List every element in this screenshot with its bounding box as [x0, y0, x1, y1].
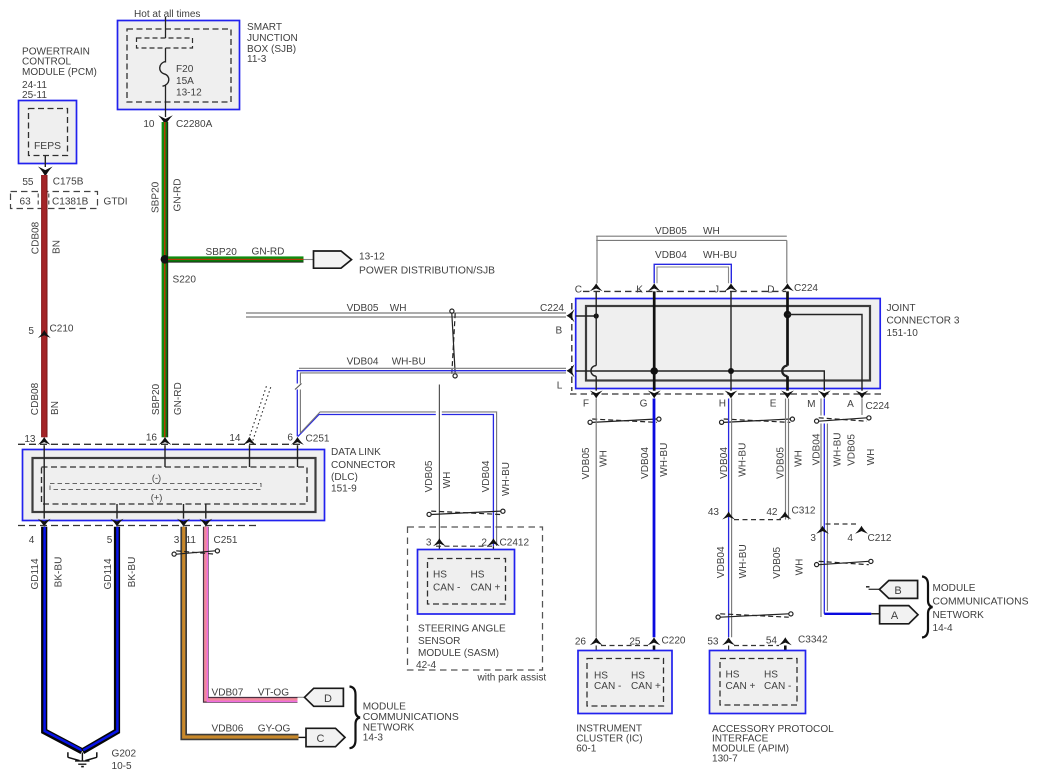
svg-text:3: 3: [810, 533, 816, 544]
DLC pin 13 arrow: [38, 437, 51, 445]
svg-text:WH: WH: [703, 226, 720, 237]
JC3 internal: C-F wire with hop: [595, 291, 597, 365]
svg-text:HS: HS: [433, 570, 447, 581]
connector A (module communications network): [880, 606, 918, 624]
svg-text:MODULE: MODULE: [363, 701, 406, 712]
instrument cluster IC box: [595, 646, 597, 659]
svg-text:WH: WH: [442, 472, 453, 489]
svg-text:G: G: [640, 399, 648, 410]
wire: battery feed "Hot at all times": [165, 17, 167, 63]
svg-text:151-9: 151-9: [331, 484, 357, 495]
JC3 pin L arrow: [566, 364, 574, 377]
svg-text:WH: WH: [599, 450, 610, 467]
connector C2412 pins 3,2: [433, 538, 446, 546]
wire CDB08 BN (red) PCM to DLC pin 13: [41, 175, 47, 437]
svg-text:HS: HS: [471, 570, 485, 581]
svg-text:SENSOR: SENSOR: [418, 636, 460, 647]
svg-text:WH-BU: WH-BU: [501, 462, 512, 496]
connector C2280A pin 10 arrow: [158, 115, 173, 126]
svg-text:WH: WH: [390, 303, 407, 314]
svg-text:63: 63: [20, 197, 32, 208]
wire VDB04 WH-BU pin G to IC pin 25 (blue): [653, 399, 656, 638]
svg-text:POWER DISTRIBUTION/SJB: POWER DISTRIBUTION/SJB: [359, 266, 495, 277]
JC3 internal: B bus (VDB05): [576, 315, 597, 317]
svg-text:WH-BU: WH-BU: [659, 443, 670, 477]
svg-text:14-4: 14-4: [933, 623, 954, 634]
svg-text:GD114: GD114: [30, 558, 41, 589]
svg-text:BOX (SJB): BOX (SJB): [247, 44, 296, 55]
wire VDB05 WH pin F to IC pin 26: [595, 399, 597, 638]
svg-text:151-10: 151-10: [887, 328, 919, 339]
twisted pair symbol (vertical): [450, 309, 454, 313]
svg-text:10-5: 10-5: [112, 761, 133, 772]
svg-text:WH-BU: WH-BU: [703, 250, 737, 261]
svg-text:14-3: 14-3: [363, 733, 384, 744]
svg-text:VDB04: VDB04: [716, 546, 727, 578]
svg-text:FEPS: FEPS: [34, 141, 61, 152]
svg-text:13-12: 13-12: [359, 252, 385, 263]
wire VDB04 WH-BU to joint connector pin L: [299, 367, 566, 369]
svg-text:WH-BU: WH-BU: [832, 432, 843, 466]
connector C224 dashed line (top): [583, 290, 786, 292]
svg-text:26: 26: [575, 637, 587, 648]
svg-text:S220: S220: [173, 275, 197, 286]
wire VDB07 VT-OG (pink) pin11 to connector D: [206, 527, 298, 700]
svg-text:H: H: [719, 399, 726, 410]
JC3 internal: D-E wire with hop: [786, 291, 789, 365]
connector C251 dashed line (DLC top): [18, 443, 301, 445]
svg-text:GD114: GD114: [103, 558, 114, 589]
svg-text:HS: HS: [726, 670, 740, 681]
svg-text:GN-RD: GN-RD: [173, 382, 184, 415]
wire GD114 BK-BU pin5 to G202: [83, 527, 117, 752]
JC3 bottom pin arrows F,G,H,E,M,A: [590, 391, 603, 399]
svg-text:55: 55: [22, 177, 34, 188]
svg-text:JOINT: JOINT: [887, 303, 916, 314]
svg-text:25-11: 25-11: [22, 90, 47, 101]
svg-text:C220: C220: [662, 636, 686, 647]
wire VDB05 WH (gray pair) to joint connector pin B: [246, 312, 566, 314]
svg-text:(+): (+): [151, 493, 163, 503]
wire VDB05 WH to SASM pin 3: [438, 385, 440, 547]
svg-text:COMMUNICATIONS: COMMUNICATIONS: [933, 597, 1029, 608]
wire SBP20 GN-RD branch to power distribution: [168, 256, 304, 262]
svg-text:G202: G202: [112, 749, 137, 760]
svg-text:5: 5: [28, 326, 34, 337]
JC3 top pin arrows C,K,J,D: [590, 283, 603, 291]
SASM outer dashed box (with park assist): [408, 527, 543, 670]
svg-text:C2412: C2412: [500, 538, 530, 549]
twisted pair above SASM: [427, 512, 431, 516]
svg-text:BN: BN: [52, 240, 63, 254]
svg-text:42-4: 42-4: [416, 660, 437, 671]
svg-text:SBP20: SBP20: [151, 181, 162, 213]
svg-text:B: B: [894, 585, 901, 597]
SJB inner dashed outline: [127, 29, 231, 102]
svg-text:CDB08: CDB08: [31, 221, 42, 254]
svg-text:GN-RD: GN-RD: [252, 247, 285, 258]
DLC pin 14 arrow: [243, 437, 256, 445]
twisted pair M/A lower: [815, 563, 819, 567]
svg-text:VDB05: VDB05: [424, 460, 435, 492]
connector C251 dashed line (DLC bottom): [18, 525, 258, 527]
svg-text:15A: 15A: [176, 76, 194, 87]
connector C312 pins 43,42: [722, 512, 735, 520]
svg-text:CAN +: CAN +: [631, 681, 661, 692]
svg-text:L: L: [557, 381, 563, 392]
svg-text:HS: HS: [764, 670, 778, 681]
brace module communications network 14-3: [350, 687, 361, 749]
svg-text:C224: C224: [866, 401, 890, 412]
svg-text:C212: C212: [868, 533, 892, 544]
svg-text:C251: C251: [306, 434, 330, 445]
svg-text:WH-BU: WH-BU: [392, 357, 426, 368]
JC3 internal: L bus (VDB04): [576, 371, 825, 391]
svg-text:53: 53: [707, 636, 719, 647]
svg-text:C224: C224: [540, 303, 564, 314]
svg-text:11: 11: [186, 535, 197, 546]
svg-text:BK-BU: BK-BU: [127, 557, 138, 588]
svg-text:MODULE (PCM): MODULE (PCM): [22, 67, 97, 78]
svg-text:VDB07: VDB07: [212, 687, 244, 698]
svg-text:J: J: [714, 285, 719, 296]
twisted pair F-G: [588, 420, 592, 424]
DLC internal pin wires: [43, 445, 45, 518]
splice S220 junction dot: [161, 255, 170, 264]
svg-text:VDB05: VDB05: [772, 546, 783, 578]
wire: fuse to connector C2280A: [165, 86, 167, 118]
svg-text:C1381B: C1381B: [52, 197, 89, 208]
svg-text:WH: WH: [795, 559, 806, 576]
svg-text:SMART: SMART: [247, 22, 282, 33]
svg-text:A: A: [847, 399, 854, 410]
accessory protocol interface module APIM box: [728, 646, 730, 659]
wire VDB05 WH top loop C-D: [596, 235, 787, 237]
svg-text:VT-OG: VT-OG: [258, 687, 289, 698]
gap where SASM WH wire crosses: [436, 411, 442, 417]
svg-text:C251: C251: [214, 535, 238, 546]
JC3 internal: D to A branch: [784, 311, 792, 319]
connector C1381B (GTDI) dashed box: [11, 192, 98, 209]
twisted pair H-E: [720, 420, 724, 424]
svg-text:STEERING ANGLE: STEERING ANGLE: [418, 624, 506, 635]
svg-text:GY-OG: GY-OG: [258, 724, 291, 735]
svg-text:VDB05: VDB05: [581, 447, 592, 479]
svg-text:F20: F20: [176, 64, 194, 75]
svg-text:54: 54: [766, 636, 778, 647]
DLC pin 6 arrow: [291, 437, 304, 445]
twisted pair above C3342: [716, 615, 720, 619]
svg-text:5: 5: [107, 535, 113, 546]
connector C210 pin 5 arrow: [38, 330, 51, 338]
svg-text:10: 10: [143, 119, 155, 130]
svg-text:14: 14: [229, 433, 241, 444]
svg-text:WH: WH: [793, 450, 804, 467]
svg-text:13-12: 13-12: [176, 88, 202, 99]
svg-text:CONNECTOR: CONNECTOR: [331, 460, 396, 471]
wire VDB05 WH pin E to C312 pin 42: [785, 399, 787, 520]
off-page connector POWER DISTRIBUTION/SJB: [314, 251, 352, 268]
wire VDB04 WH-BU pin H to APIM pin 53: [728, 399, 730, 638]
svg-text:NETWORK: NETWORK: [363, 722, 415, 733]
svg-text:C175B: C175B: [53, 177, 84, 188]
svg-text:F: F: [583, 399, 589, 410]
joint connector 3 box: [576, 299, 881, 389]
svg-text:(DLC): (DLC): [331, 472, 358, 483]
svg-text:VDB04: VDB04: [719, 447, 730, 479]
crossover jog on VDB04 drop: [294, 384, 303, 390]
svg-text:CONNECTOR 3: CONNECTOR 3: [887, 316, 960, 327]
svg-text:VDB04: VDB04: [347, 357, 379, 368]
svg-text:NETWORK: NETWORK: [933, 610, 985, 621]
svg-text:C: C: [317, 733, 325, 745]
wire stubs M and A into twist: [820, 399, 822, 416]
svg-text:with park assist: with park assist: [477, 673, 547, 684]
connector B (module communications network): [879, 581, 917, 599]
svg-text:CAN -: CAN -: [433, 583, 460, 594]
svg-text:VDB05: VDB05: [776, 447, 787, 479]
svg-text:(-): (-): [152, 473, 161, 483]
svg-text:11-3: 11-3: [247, 54, 267, 65]
svg-text:43: 43: [708, 507, 720, 518]
powertrain control module PCM box: [19, 101, 77, 164]
JC3 internal: K-G wire: [653, 291, 656, 390]
connector D (module communications network): [298, 696, 306, 698]
svg-text:60-1: 60-1: [576, 743, 597, 754]
svg-text:CAN +: CAN +: [726, 681, 756, 692]
svg-text:CAN +: CAN +: [471, 583, 501, 594]
svg-text:D: D: [767, 285, 774, 296]
svg-text:4: 4: [29, 535, 35, 546]
svg-text:K: K: [636, 285, 643, 296]
svg-text:130-7: 130-7: [712, 754, 738, 765]
svg-text:SBP20: SBP20: [151, 383, 162, 415]
svg-text:MODULE: MODULE: [933, 583, 976, 594]
svg-text:CAN -: CAN -: [594, 681, 621, 692]
DLC bottom arrows pins 4,5,3,11: [38, 519, 51, 527]
pin 14 no-connection dotted diagonal: [249, 386, 267, 440]
svg-text:SBP20: SBP20: [206, 247, 238, 258]
svg-text:VDB05: VDB05: [655, 226, 687, 237]
svg-text:C210: C210: [50, 324, 74, 335]
svg-text:E: E: [770, 399, 777, 410]
brace module communications network 14-4: [922, 577, 933, 638]
svg-text:WH-BU: WH-BU: [738, 544, 749, 578]
wire SBP20 GN-RD (green/red) SJB to DLC pin 16: [162, 122, 169, 437]
connector C175B pin 55 arrow: [38, 167, 53, 178]
svg-text:VDB05: VDB05: [347, 303, 379, 314]
ground G202 symbol: [81, 753, 83, 761]
svg-text:MODULE (SASM): MODULE (SASM): [418, 648, 499, 659]
svg-text:VDB06: VDB06: [212, 724, 244, 735]
wire VDB06 GY-OG (tan) pin3 to connector C: [184, 527, 299, 737]
connector C220 pins 26,25: [590, 637, 603, 645]
fuse F20 15A symbol: [160, 62, 169, 87]
wire VDB04 WH-BU / VDB05 WH pair below twist: [820, 424, 822, 618]
svg-text:GTDI: GTDI: [104, 197, 128, 208]
svg-text:VDB05: VDB05: [847, 434, 858, 466]
svg-text:BN: BN: [50, 401, 61, 415]
svg-text:3: 3: [174, 535, 180, 546]
connector C224 dashed line (bottom): [570, 393, 884, 395]
svg-text:BK-BU: BK-BU: [54, 557, 65, 588]
svg-text:B: B: [555, 326, 562, 337]
svg-text:C3342: C3342: [798, 635, 828, 646]
svg-text:CDB08: CDB08: [30, 382, 41, 415]
DLC pin 16 arrow: [159, 437, 172, 445]
svg-text:VDB04: VDB04: [481, 460, 492, 492]
C224 dashed line (left side): [571, 303, 573, 391]
svg-text:VDB04: VDB04: [655, 250, 687, 261]
svg-text:42: 42: [766, 507, 778, 518]
svg-text:2: 2: [481, 538, 487, 549]
svg-text:C2280A: C2280A: [176, 119, 213, 130]
svg-text:A: A: [891, 610, 899, 622]
stub to connector B: [866, 586, 870, 588]
svg-text:M: M: [807, 399, 815, 410]
svg-text:16: 16: [146, 432, 158, 443]
wire: FEPS output: [44, 156, 46, 167]
wire branch DLC pin6 to SASM (diagonal): [298, 415, 494, 547]
svg-text:C224: C224: [794, 283, 818, 294]
svg-text:COMMUNICATIONS: COMMUNICATIONS: [363, 712, 459, 723]
connector C212 pins 3,4: [826, 523, 857, 525]
svg-text:Hot at all times: Hot at all times: [134, 9, 200, 20]
wire VDB04 to connector A: [824, 613, 871, 615]
connector C3342 pins 53,54: [722, 637, 735, 645]
smart junction box SJB outer box: [118, 21, 240, 110]
wire VDB04 WH-BU top loop K-J: [654, 264, 731, 283]
svg-text:VDB04: VDB04: [640, 447, 651, 479]
svg-text:GN-RD: GN-RD: [173, 179, 184, 212]
svg-text:13: 13: [24, 434, 36, 445]
svg-text:D: D: [324, 693, 332, 705]
svg-text:JUNCTION: JUNCTION: [247, 33, 298, 44]
svg-text:C: C: [575, 285, 582, 296]
JC3 pin B arrow: [566, 309, 574, 322]
data link connector DLC box: [23, 450, 325, 521]
wire GD114 BK-BU pin4 to G202: [44, 527, 82, 752]
SJB internal bus bar: [137, 38, 193, 48]
svg-text:3: 3: [426, 538, 432, 549]
svg-text:4: 4: [847, 533, 853, 544]
steering angle sensor module SASM box: [438, 546, 440, 558]
svg-text:CAN -: CAN -: [764, 681, 791, 692]
svg-text:WH: WH: [866, 449, 877, 466]
PCM inner dashed outline FEPS: [29, 109, 68, 156]
twisted pair M-A: [815, 419, 819, 423]
svg-text:WH-BU: WH-BU: [737, 443, 748, 477]
JC3 internal: J-H wire: [730, 291, 732, 390]
svg-text:25: 25: [629, 637, 641, 648]
twisted pair symbol tan/pink: [172, 552, 176, 556]
svg-text:DATA LINK: DATA LINK: [331, 447, 381, 458]
svg-text:C312: C312: [792, 506, 816, 517]
svg-text:6: 6: [287, 433, 293, 444]
connector C (module communications network): [299, 736, 308, 738]
